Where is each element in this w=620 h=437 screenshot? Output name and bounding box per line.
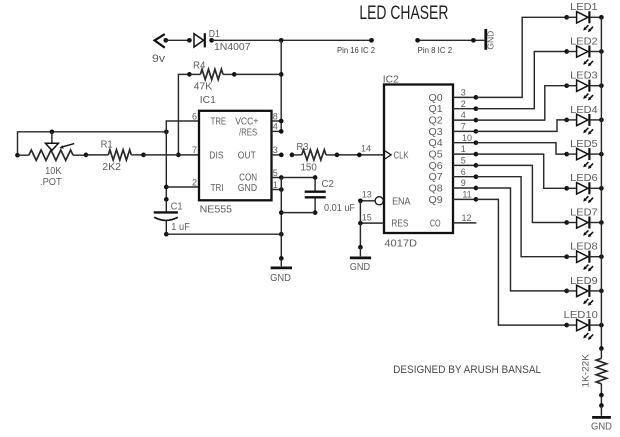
svg-text:15: 15	[362, 213, 372, 223]
label Q2	[429, 116, 444, 127]
pin 10 (Q4) stub	[453, 133, 478, 145]
svg-text:TRE: TRE	[211, 117, 227, 128]
pin 5 (Q6) stub	[453, 156, 478, 168]
svg-text:LED4: LED4	[570, 105, 598, 116]
pin 4 (Q2) stub	[453, 110, 478, 122]
pin 4 stub	[272, 122, 284, 134]
wire Q6 to LED7	[476, 165, 567, 222]
svg-text:5: 5	[461, 156, 466, 166]
svg-text:GND: GND	[486, 31, 496, 50]
svg-text:LED9: LED9	[570, 276, 598, 287]
LED D1 (LED1)	[564, 2, 603, 32]
label Q1	[429, 104, 444, 115]
svg-text:CLK: CLK	[394, 151, 409, 162]
svg-text:1: 1	[273, 180, 278, 190]
wire Q2 to LED3	[476, 86, 567, 120]
pin 6 (Q7) stub	[453, 167, 478, 179]
capacitor C2 0.01 uF	[305, 178, 355, 215]
label Q5	[429, 150, 444, 161]
svg-text:NE555: NE555	[200, 203, 233, 215]
label Q9	[429, 195, 444, 206]
wire Pin 8 IC 2 to ground	[415, 38, 484, 55]
wire TRI stub pin 2	[166, 186, 199, 188]
svg-text:LED7: LED7	[570, 207, 598, 218]
svg-text:R3: R3	[297, 142, 309, 153]
title LED CHASER	[359, 3, 448, 24]
svg-text:.POT: .POT	[40, 177, 62, 188]
wire R1 to DIS pin 7	[144, 154, 200, 156]
svg-text:10K: 10K	[45, 166, 62, 177]
svg-text:R1: R1	[101, 139, 113, 150]
potentiometer 10K .POT	[15, 132, 86, 188]
svg-text:Q7: Q7	[429, 172, 444, 183]
LED D4 (LED4)	[564, 105, 603, 135]
svg-text:12: 12	[461, 213, 471, 223]
LED D5 (LED5)	[564, 139, 603, 169]
wire pot wiper rail to TRE/TRI node	[18, 129, 169, 155]
svg-text:0.01 uF: 0.01 uF	[324, 203, 355, 214]
pin 15 RES stub	[358, 213, 384, 226]
svg-text:Q1: Q1	[429, 104, 444, 115]
ground (bottom right)	[591, 406, 612, 433]
svg-text:Q0: Q0	[429, 93, 444, 104]
wire Q7 to LED8	[476, 177, 567, 257]
svg-text:1 uF: 1 uF	[171, 222, 190, 233]
svg-text:OUT: OUT	[238, 151, 256, 162]
svg-text:8: 8	[273, 111, 278, 121]
pin 7 (Q3) stub	[453, 122, 478, 134]
svg-text:9v: 9v	[152, 53, 166, 65]
wire R3 to CLK pin 14	[337, 144, 384, 158]
wire 9v to D1 anode	[166, 38, 192, 43]
svg-text:Q3: Q3	[429, 127, 444, 138]
wire LED cathode rail	[599, 17, 604, 351]
resistor R3 150	[290, 142, 340, 174]
pin 5 CON stub	[272, 168, 284, 180]
svg-text:10: 10	[462, 133, 472, 143]
svg-text:5: 5	[273, 168, 278, 178]
svg-text:GND: GND	[591, 421, 612, 432]
svg-text:47K: 47K	[194, 81, 213, 92]
svg-text:LED10: LED10	[564, 310, 599, 321]
svg-text:GND: GND	[270, 273, 291, 284]
9v supply connector	[152, 34, 168, 65]
svg-text:Q6: Q6	[429, 161, 444, 172]
wire TRE corner / node to TRI and C1	[164, 121, 199, 202]
svg-text:GND: GND	[350, 262, 370, 273]
svg-text:Q8: Q8	[429, 184, 444, 195]
counter IC U2 (IC2 4017D)	[383, 74, 453, 250]
svg-text:DESIGNED BY ARUSH BANSAL: DESIGNED BY ARUSH BANSAL	[393, 364, 541, 376]
svg-text:Q4: Q4	[429, 138, 444, 149]
svg-text:TRI: TRI	[211, 183, 224, 194]
LED D6 (LED6)	[564, 173, 603, 203]
label Q7	[429, 172, 444, 183]
svg-text:DIS: DIS	[209, 151, 223, 162]
svg-text:Q9: Q9	[429, 195, 444, 206]
LED D2 (LED2)	[564, 36, 603, 66]
wire Q3 to LED4	[476, 120, 567, 131]
wire CON to C2	[281, 175, 317, 180]
svg-text:3: 3	[273, 145, 278, 155]
LED D10 (LED10)	[564, 310, 604, 340]
wire D1 cathode to VCC rail and Pin 16 IC 2	[212, 38, 376, 55]
label Q4	[429, 138, 444, 149]
pin 3 OUT stub	[272, 145, 284, 157]
svg-text:VCC+: VCC+	[235, 117, 258, 128]
wire Q4 to LED5	[476, 143, 567, 154]
svg-text:CON: CON	[239, 173, 257, 184]
svg-text:1N4007: 1N4007	[214, 42, 251, 53]
wire ground rail right of IC1	[279, 178, 284, 261]
svg-text:Q5: Q5	[429, 150, 444, 161]
pin 9 (Q8) stub	[453, 178, 478, 190]
wire Q9 to LED10	[476, 199, 567, 325]
resistor R1 2K2	[84, 139, 146, 173]
ground (top, Pin 8 IC 2)	[486, 29, 496, 50]
svg-text:4: 4	[461, 110, 466, 120]
label Q8	[429, 184, 444, 195]
LED D9 (LED9)	[564, 276, 603, 306]
svg-text:13: 13	[362, 190, 372, 200]
svg-text:GND: GND	[238, 183, 257, 194]
pin 11 (Q9) stub	[453, 190, 478, 202]
LED D3 (LED3)	[564, 71, 603, 101]
wire C1 bottom to ground rail	[166, 232, 283, 237]
LED D7 (LED7)	[564, 207, 603, 237]
svg-text:LED6: LED6	[570, 173, 598, 184]
LED D8 (LED8)	[564, 242, 603, 272]
pin 3 (Q0) stub	[453, 88, 478, 100]
svg-text:Q2: Q2	[429, 116, 444, 127]
svg-text:9: 9	[461, 178, 466, 188]
wire Q0 to LED1	[476, 17, 567, 97]
svg-text:C1: C1	[171, 201, 183, 212]
svg-text:3: 3	[461, 88, 466, 98]
wire R4 left to DIS junction	[176, 74, 189, 157]
wire VCC rail (node VCC)	[279, 40, 284, 131]
pin 1 GND stub	[272, 180, 284, 192]
svg-text:7: 7	[461, 122, 466, 132]
svg-text:7: 7	[192, 145, 197, 155]
wire R4 right to VCC rail	[234, 73, 281, 75]
svg-text:14: 14	[361, 144, 371, 154]
svg-text:R4: R4	[193, 61, 206, 72]
svg-text:LED CHASER: LED CHASER	[359, 3, 448, 24]
pin 6 label	[192, 111, 197, 121]
pin 12 CO stub	[453, 213, 476, 223]
wire Q8 to LED9	[476, 188, 567, 291]
svg-text:IC2: IC2	[383, 74, 399, 86]
svg-text:LED8: LED8	[570, 242, 598, 253]
svg-text:2K2: 2K2	[102, 162, 121, 173]
capacitor C1 1 uF	[154, 199, 190, 236]
svg-text:LED3: LED3	[570, 71, 598, 82]
op-amp/timer IC U1 (IC1 NE555)	[199, 94, 272, 215]
svg-text:C2: C2	[322, 179, 335, 190]
resistor R 1K-22K	[581, 349, 607, 398]
svg-text:ENA: ENA	[392, 197, 411, 208]
svg-text:11: 11	[462, 190, 471, 200]
ground (below IC1 rail)	[270, 258, 292, 283]
wire Q5 to LED6	[476, 154, 567, 188]
svg-text:LED2: LED2	[570, 36, 598, 47]
svg-text:2: 2	[192, 177, 197, 187]
label Q3	[429, 127, 444, 138]
svg-text:1: 1	[461, 144, 466, 154]
pin 13 ENA bubble and stub	[358, 190, 383, 205]
ground (below IC2 ENA/RES)	[350, 247, 371, 273]
pin 2 (Q1) stub	[453, 99, 478, 111]
svg-text:6: 6	[461, 167, 466, 177]
svg-text:6: 6	[192, 111, 197, 121]
svg-text:4017D: 4017D	[384, 237, 417, 249]
svg-text:RES: RES	[391, 219, 408, 230]
pin 2 label	[192, 177, 197, 187]
svg-text:LED1: LED1	[570, 2, 598, 13]
svg-text:150: 150	[301, 162, 318, 173]
svg-text:CO: CO	[430, 219, 441, 230]
diode D1 1N4007	[194, 29, 251, 53]
svg-text:1K-22K: 1K-22K	[581, 353, 592, 387]
wire C2 bottom to ground rail	[281, 212, 315, 214]
svg-text:IC1: IC1	[200, 94, 216, 106]
pin 7 label	[192, 145, 197, 155]
svg-text:4: 4	[273, 122, 278, 132]
pin 1 (Q5) stub	[453, 144, 478, 156]
wire Q1 to LED2	[476, 52, 567, 109]
label Q6	[429, 161, 444, 172]
svg-text:2: 2	[461, 99, 466, 109]
label Q0	[429, 93, 444, 104]
svg-text:LED5: LED5	[570, 139, 598, 150]
svg-text:Pin 16 IC 2: Pin 16 IC 2	[337, 46, 375, 55]
pin 8 stub	[272, 111, 284, 123]
resistor R4 47K	[187, 61, 237, 93]
credit text	[393, 364, 541, 376]
svg-text:/RES: /RES	[239, 127, 257, 138]
svg-text:Pin 8 IC 2: Pin 8 IC 2	[418, 46, 453, 55]
wire resistor to ground	[599, 395, 604, 408]
wire ENA/RES to ground	[358, 201, 363, 250]
